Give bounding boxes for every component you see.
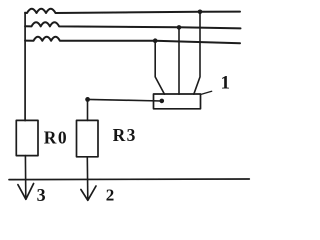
arrow head of earth electrode 3 <box>18 184 34 200</box>
wire: neutral tap from node A to box enclosure <box>88 99 162 101</box>
svg-text:R3: R3 <box>113 125 137 145</box>
node A junction dot above R3 <box>85 97 90 102</box>
svg-text:2: 2 <box>106 185 115 204</box>
resistor R0 (grounding resistor) <box>16 120 38 155</box>
load box 1 (equipment enclosure) <box>154 94 201 109</box>
leader line from label 1 to box <box>201 91 212 94</box>
inductor L3 (phase C coil) and phase C bus line <box>25 37 240 43</box>
resistor R3 (grounding resistor) <box>77 120 99 156</box>
wire: drop from phase B to load box (middle lead) <box>178 27 180 94</box>
ground reference line (earth surface) <box>9 178 249 181</box>
svg-text:3: 3 <box>37 185 46 205</box>
junction dot inside box 1 <box>160 99 165 104</box>
wire: R0 to earth electrode 3 <box>24 156 26 200</box>
inductor L1 (phase A coil) and phase A bus line <box>25 9 240 13</box>
svg-text:R0: R0 <box>44 128 68 148</box>
junction dot on phase C at left drop <box>153 38 158 43</box>
inductor L2 (phase B coil) and phase B bus line <box>25 22 240 28</box>
wire: drop from phase C to load box (left funnel lead) <box>155 41 164 94</box>
wire: R3 to earth electrode 2 <box>86 157 89 200</box>
junction dot on phase A at right drop <box>198 10 203 15</box>
junction dot on phase B at middle drop <box>177 25 182 30</box>
arrow head of earth electrode 2 <box>81 186 96 200</box>
wire: left vertical feeder bus joining phases L1,L2,L3 down to R0 <box>24 13 26 121</box>
wire: drop from phase A to load box (right funnel lead) <box>194 12 200 94</box>
wire: node A down to resistor R3 <box>87 99 89 120</box>
svg-text:1: 1 <box>221 72 231 93</box>
